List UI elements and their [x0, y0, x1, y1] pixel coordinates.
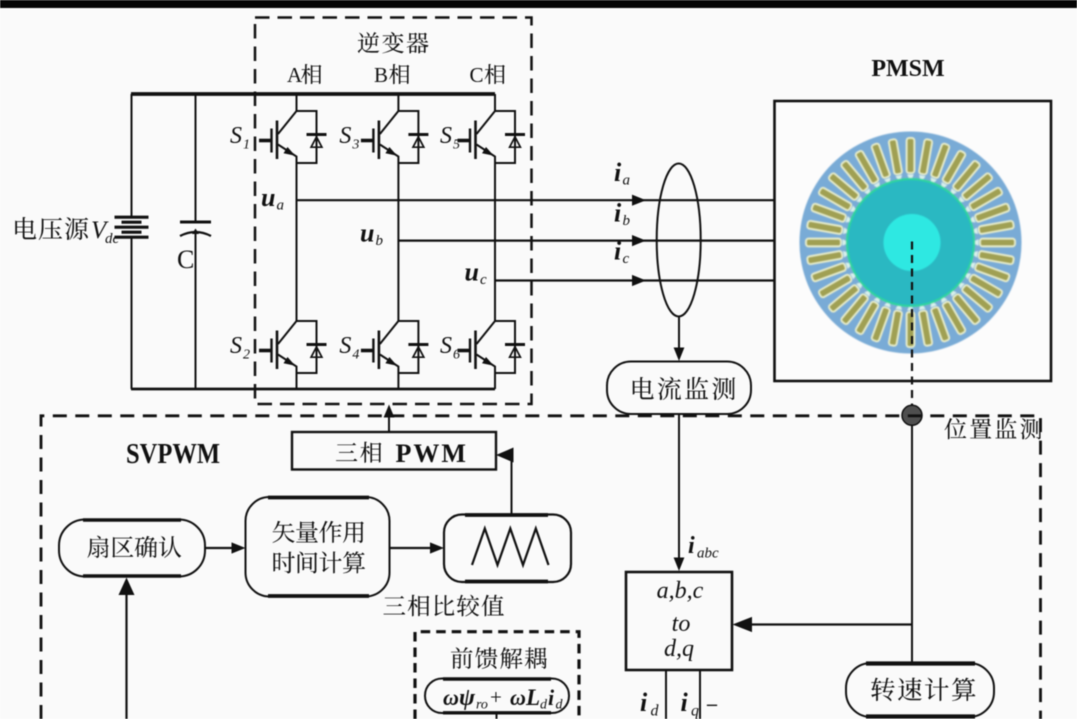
block 扇区确认 (sector confirm) [59, 520, 205, 577]
wire: sensor to 电流监测 [678, 317, 680, 351]
svg-text:A: A [287, 63, 303, 87]
block 三相PWM [292, 432, 496, 470]
block 矢量作用时间计算 [246, 497, 390, 597]
wire: capacitor top lead [195, 94, 197, 221]
wire: phase B output (ib line) [398, 240, 774, 242]
current sensor ellipse [657, 164, 701, 317]
block abc to dq transform [626, 572, 732, 670]
block triangle carrier generator [444, 515, 571, 583]
svg-text:i: i [614, 237, 622, 266]
svg-text:5: 5 [453, 138, 460, 153]
svg-text:3: 3 [351, 138, 359, 153]
svg-text:u: u [360, 219, 374, 248]
svg-text:C: C [470, 63, 484, 87]
wire speed feedback to abc-dq [750, 623, 912, 625]
position sensor node [902, 405, 922, 425]
wire: battery top lead [131, 94, 133, 216]
svg-text:C: C [177, 245, 194, 274]
svg-text:a: a [277, 198, 285, 214]
svg-text:c: c [480, 272, 487, 288]
label 位置监测 [944, 418, 1041, 439]
wire: phase C leg [494, 94, 496, 389]
wire iq output [699, 670, 701, 719]
svg-text:S: S [339, 333, 351, 359]
motor stator slots [806, 138, 1015, 347]
inverter dashed enclosure [255, 18, 532, 405]
svg-text:L: L [525, 685, 540, 710]
arrow 矢量作用时间计算 to carrier [390, 547, 434, 549]
label 逆变器 [358, 32, 429, 53]
transistor Q6 (IGBT S6 with freewheel diode) [458, 321, 526, 373]
wire id output [665, 670, 667, 719]
transistor Q4 (IGBT S4 with freewheel diode) [361, 321, 429, 373]
svg-text:b: b [376, 233, 384, 249]
wire: bottom DC bus [131, 388, 495, 391]
capacitor C1 [180, 221, 211, 224]
label 电压源 Vdc [15, 217, 88, 240]
block 转速计算 (speed calc) [846, 663, 994, 717]
svg-text:i: i [548, 685, 555, 710]
svg-text:PWM: PWM [396, 439, 468, 468]
arrow 扇区确认 to 矢量作用时间计算 [205, 547, 235, 549]
arrow 三相PWM to inverter [388, 415, 390, 432]
svg-text:S: S [339, 123, 351, 149]
svg-text:+: + [490, 685, 502, 709]
svg-text:a: a [623, 173, 631, 189]
svg-text:i: i [681, 688, 689, 717]
svg-text:S: S [440, 123, 452, 149]
PMSM box [775, 101, 1052, 381]
wire below formula block [496, 713, 498, 719]
svg-text:S: S [230, 123, 242, 149]
svg-text:u: u [465, 258, 479, 287]
svg-text:S: S [440, 333, 452, 359]
svg-text:d: d [651, 703, 660, 719]
top black border bar [0, 0, 1077, 8]
wire position node to 转速计算 [911, 425, 913, 663]
arrowhead into abc-dq [674, 558, 685, 572]
svg-text:q: q [691, 703, 699, 719]
svg-text:ω: ω [443, 685, 459, 710]
svg-text:ω: ω [510, 685, 526, 710]
arrowhead ia [632, 195, 646, 206]
svg-text:d,q: d,q [664, 636, 694, 662]
svg-text:a,b,c: a,b,c [657, 578, 704, 604]
svg-text:d: d [556, 698, 564, 713]
svg-text:–: – [706, 693, 718, 715]
svg-text:i: i [688, 533, 695, 559]
svg-text:i: i [614, 199, 622, 228]
svg-text:d: d [540, 698, 548, 713]
label 三相比较值 [383, 595, 503, 617]
motor rotor ring [847, 179, 974, 306]
wire: capacitor bottom lead [195, 234, 197, 389]
svg-text:u: u [261, 183, 275, 212]
arrow into 扇区确认 from below [125, 594, 127, 719]
wire: top DC bus [131, 92, 495, 96]
svg-text:PMSM: PMSM [871, 56, 944, 82]
wire carrier to 三相PWM [511, 455, 513, 515]
arrowhead ib [632, 235, 646, 246]
wire 电流监测 to abc-dq [678, 414, 680, 560]
feedforward dashed enclosure 前馈解耦 [415, 632, 579, 719]
wire: phase B leg [397, 94, 399, 389]
wire: phase A output (ia line) [297, 199, 775, 201]
transistor Q1 (IGBT S1 with freewheel diode) [259, 111, 327, 163]
dashed shaft position line [911, 242, 913, 407]
motor shaft [884, 214, 941, 271]
transistor Q2 (IGBT S2 with freewheel diode) [259, 321, 327, 373]
arrowhead into abc-dq right [733, 617, 753, 632]
svg-text:1: 1 [243, 138, 250, 153]
block 电流监测 (current monitor) [607, 362, 751, 415]
wire: battery bottom lead [131, 238, 133, 389]
svg-text:to: to [672, 611, 691, 637]
svg-text:6: 6 [453, 348, 460, 363]
svg-text:ro: ro [476, 698, 488, 713]
svg-text:SVPWM: SVPWM [126, 438, 220, 470]
transistor Q5 (IGBT S5 with freewheel diode) [458, 111, 526, 163]
block feedforward formula [425, 679, 569, 714]
transistor Q3 (IGBT S3 with freewheel diode) [361, 111, 429, 163]
svg-text:i: i [614, 158, 622, 187]
svg-text:ψ: ψ [459, 685, 476, 711]
svg-text:abc: abc [697, 546, 719, 562]
svg-text:dc: dc [105, 231, 120, 247]
label 前馈解耦 [451, 647, 547, 669]
arrowhead ic [632, 275, 646, 286]
battery V1 电压源 [115, 217, 149, 237]
motor stator outer ring [800, 132, 1022, 354]
svg-text:2: 2 [243, 348, 250, 363]
triangle carrier wave [472, 529, 549, 566]
svg-text:4: 4 [352, 348, 359, 363]
svg-text:i: i [640, 688, 648, 717]
arrowhead into 三相PWM [496, 448, 514, 463]
svg-text:B: B [374, 63, 388, 87]
svg-text:b: b [623, 213, 631, 229]
SVPWM dashed enclosure [41, 416, 1041, 719]
wire: phase A leg [296, 94, 298, 389]
svg-text:S: S [230, 333, 242, 359]
arrowhead into 电流监测 [674, 348, 685, 362]
wire: phase C output (ic line) [495, 279, 774, 281]
svg-text:c: c [623, 251, 630, 267]
